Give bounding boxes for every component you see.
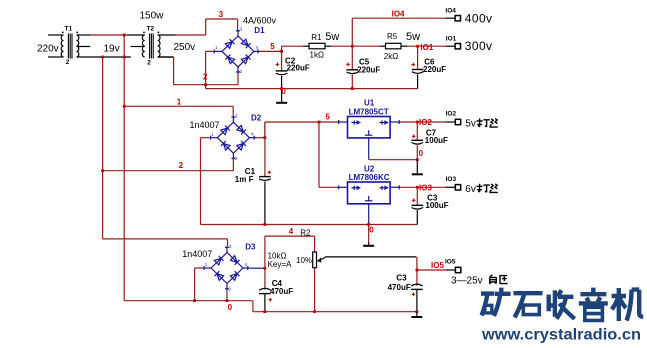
- node junction C5 net0: [351, 87, 354, 90]
- svg-text:Key=A: Key=A: [268, 260, 292, 269]
- wire rail to port IO1: [407, 45, 446, 47]
- wire rail R1 to R5: [331, 45, 380, 47]
- capacitor C7: [412, 122, 449, 160]
- node junction IO5: [416, 269, 419, 272]
- svg-text:IO2: IO2: [419, 118, 432, 127]
- capacitor C3 470uF: [388, 270, 423, 312]
- svg-text:1: 1: [177, 98, 182, 107]
- svg-text:1kΩ: 1kΩ: [310, 51, 324, 60]
- bridge rectifier D1: [214, 27, 260, 75]
- node junction D3 bottom: [226, 299, 229, 302]
- node junction C4 net0: [264, 310, 267, 313]
- svg-text:IO5: IO5: [445, 259, 456, 266]
- svg-text:IO2: IO2: [446, 111, 457, 118]
- svg-text:220v: 220v: [37, 44, 59, 55]
- svg-text:IO5: IO5: [431, 261, 444, 270]
- node junction 400v tap: [351, 45, 354, 48]
- node junction net0 start: [204, 83, 207, 86]
- svg-text:220uF: 220uF: [423, 65, 446, 74]
- svg-text:IO4: IO4: [392, 10, 405, 19]
- svg-text:0: 0: [419, 149, 424, 158]
- svg-text:2: 2: [203, 73, 208, 82]
- node junction U2 feed: [318, 121, 321, 124]
- wire D2 left to net0 row2: [201, 138, 418, 225]
- capacitor C2: [276, 51, 310, 101]
- wire T2 bottom to D1 bottom (net 0): [158, 57, 238, 85]
- svg-text:3: 3: [240, 27, 243, 32]
- node junction C3 470 net0: [416, 310, 419, 313]
- wire D3 bottom drop: [226, 291, 228, 301]
- transformer T1: [37, 26, 131, 67]
- svg-text:10%: 10%: [296, 256, 312, 265]
- svg-text:5: 5: [325, 113, 330, 122]
- svg-text:3: 3: [235, 114, 238, 119]
- node junction net1: [123, 105, 126, 108]
- node junction D2 out: [264, 136, 267, 139]
- svg-text:220uF: 220uF: [287, 63, 310, 72]
- svg-text:3: 3: [219, 10, 224, 19]
- svg-text:R2: R2: [300, 229, 311, 238]
- svg-text:IO3: IO3: [419, 184, 432, 193]
- svg-text:LM7806KC: LM7806KC: [349, 173, 390, 182]
- svg-text:1: 1: [215, 45, 218, 50]
- wire net IO4 400v: [352, 18, 446, 46]
- wire vertical 2 (T2 top feed down): [123, 35, 125, 301]
- node junction bottom lead x102: [101, 56, 104, 59]
- port IO3: [446, 176, 461, 190]
- wire D2 right to C1/U1: [256, 122, 337, 138]
- bridge rectifier D3: [203, 244, 249, 291]
- voltage regulator U2: [337, 165, 401, 204]
- node junction net4 C4: [264, 267, 267, 270]
- node junction C2 tap: [280, 50, 283, 53]
- char kuang: [481, 294, 494, 316]
- ground C2: [276, 102, 287, 104]
- svg-text:3—25v: 3—25v: [451, 276, 483, 287]
- wire R2 bottom: [314, 268, 316, 312]
- svg-text:250v: 250v: [174, 42, 196, 53]
- node junction C7 top: [416, 121, 419, 124]
- wire net 19v top link: [90, 34, 127, 36]
- wire U2 feed: [319, 122, 337, 187]
- wire D1 output net 5: [259, 46, 282, 51]
- svg-text:220uF: 220uF: [357, 66, 380, 75]
- svg-text:3: 3: [229, 244, 232, 249]
- node junction U2 gnd: [367, 223, 370, 226]
- node junction T2 top: [123, 34, 126, 37]
- svg-text:1: 1: [211, 132, 214, 137]
- svg-text:470uF: 470uF: [270, 287, 293, 296]
- wire net 3 (T2 top to D1): [176, 19, 238, 35]
- watermark text chinese: [481, 288, 643, 321]
- svg-text:2: 2: [179, 161, 184, 170]
- transformer T2: [127, 11, 195, 67]
- svg-text:www.crystalradio.cn: www.crystalradio.cn: [481, 326, 641, 343]
- wire D3 left drop: [195, 268, 204, 301]
- svg-text:100uF: 100uF: [425, 136, 448, 145]
- node junction C2 net0: [280, 87, 283, 90]
- char yin: [579, 288, 608, 304]
- svg-text:T1: T1: [65, 26, 73, 33]
- svg-text:0: 0: [228, 303, 233, 312]
- wire net 2 row: [103, 160, 234, 171]
- svg-text:IO3: IO3: [446, 176, 457, 183]
- svg-text:6v: 6v: [465, 184, 476, 195]
- svg-text:D2: D2: [251, 113, 262, 122]
- svg-text:4: 4: [256, 45, 259, 50]
- label fuya glyphs: [489, 275, 507, 284]
- node junction bottom lead x124: [123, 56, 126, 59]
- svg-text:2: 2: [235, 156, 238, 161]
- svg-text:D1: D1: [254, 26, 265, 35]
- svg-text:0: 0: [369, 225, 374, 234]
- svg-text:1m F: 1m F: [235, 175, 254, 184]
- wire vertical 1 (T1 bottom feed down): [102, 57, 104, 239]
- svg-text:D3: D3: [245, 243, 256, 252]
- label 6v dasi glyphs: [477, 184, 498, 193]
- port IO2: [446, 111, 461, 125]
- wire D1 left vertex (net 2): [206, 51, 214, 84]
- svg-text:4A/600v: 4A/600v: [243, 16, 277, 26]
- ground U1/C7: [412, 160, 423, 175]
- port IO5: [445, 259, 461, 273]
- svg-text:IO4: IO4: [445, 8, 456, 15]
- svg-text:LM7805CT: LM7805CT: [349, 108, 389, 117]
- port IO4: [445, 8, 460, 21]
- capacitor C4: [259, 279, 293, 312]
- capacitor C6: [412, 46, 447, 88]
- svg-text:2kΩ: 2kΩ: [384, 52, 398, 61]
- svg-text:C3: C3: [396, 274, 407, 283]
- ground bottom: [411, 312, 422, 317]
- wire D3 top feed: [103, 239, 228, 246]
- svg-text:IO1: IO1: [446, 35, 457, 42]
- wire U1 gnd: [369, 138, 418, 160]
- svg-text:150w: 150w: [140, 11, 165, 22]
- node junction C1 net0: [264, 223, 267, 226]
- svg-text:U1: U1: [364, 98, 375, 107]
- svg-text:1: 1: [205, 262, 208, 267]
- potentiometer R2: [268, 229, 326, 270]
- svg-text:19v: 19v: [104, 44, 120, 55]
- wire net 1: [124, 106, 233, 116]
- svg-text:470uF: 470uF: [388, 283, 411, 292]
- svg-text:1n4007: 1n4007: [190, 120, 220, 130]
- capacitor C3 100uF: [412, 187, 449, 224]
- wire net 4: [265, 236, 315, 290]
- node junction net2: [101, 169, 104, 172]
- svg-text:300v: 300v: [465, 39, 493, 53]
- svg-text:2: 2: [66, 59, 70, 66]
- svg-text:4: 4: [245, 262, 248, 267]
- bridge rectifier D2: [210, 114, 256, 162]
- svg-text:5: 5: [270, 42, 275, 51]
- node junction C6 rail: [416, 45, 419, 48]
- node junction D3 left: [193, 299, 196, 302]
- svg-text:5w: 5w: [325, 31, 339, 43]
- svg-text:T2: T2: [147, 26, 155, 33]
- svg-text:100uF: 100uF: [425, 201, 448, 210]
- wire net 0 row1: [206, 85, 418, 89]
- wire U2 gnd: [368, 204, 370, 225]
- wire D3 right to net4: [250, 267, 264, 269]
- svg-text:R1: R1: [311, 33, 322, 42]
- voltage regulator U1: [337, 98, 401, 137]
- char ji: [612, 288, 626, 321]
- label 5v dasi glyphs: [477, 118, 498, 127]
- svg-text:R5: R5: [387, 32, 398, 41]
- capacitor C1: [235, 122, 271, 225]
- wire net 0 bottom H1: [124, 301, 253, 312]
- svg-text:4: 4: [251, 132, 254, 137]
- wire U2 out to IO3: [401, 186, 446, 188]
- svg-text:5v: 5v: [465, 119, 476, 130]
- port IO1: [446, 35, 461, 49]
- svg-text:IO1: IO1: [420, 43, 433, 52]
- wire main rail to R1: [282, 45, 303, 47]
- resistor R5: [380, 32, 408, 61]
- svg-text:1n4007: 1n4007: [182, 249, 212, 259]
- svg-text:5w: 5w: [406, 31, 420, 43]
- capacitor C5: [346, 46, 380, 88]
- svg-text:4: 4: [289, 227, 294, 236]
- node junction C3 top: [416, 186, 419, 189]
- wire R2 wiper to IO5: [325, 257, 446, 270]
- node junction C7 gnd: [416, 158, 419, 161]
- wire U1 out to IO2: [401, 121, 446, 123]
- resistor R1: [303, 33, 331, 59]
- svg-text:2: 2: [240, 69, 243, 74]
- svg-text:400v: 400v: [465, 12, 493, 26]
- svg-text:2: 2: [147, 60, 151, 67]
- char shi: [514, 293, 543, 317]
- node junction R2 bottom: [313, 310, 316, 313]
- ground U2: [363, 225, 374, 246]
- svg-text:2: 2: [229, 286, 232, 291]
- wire net 0 bottom H2: [253, 311, 417, 313]
- char shou: [549, 290, 555, 316]
